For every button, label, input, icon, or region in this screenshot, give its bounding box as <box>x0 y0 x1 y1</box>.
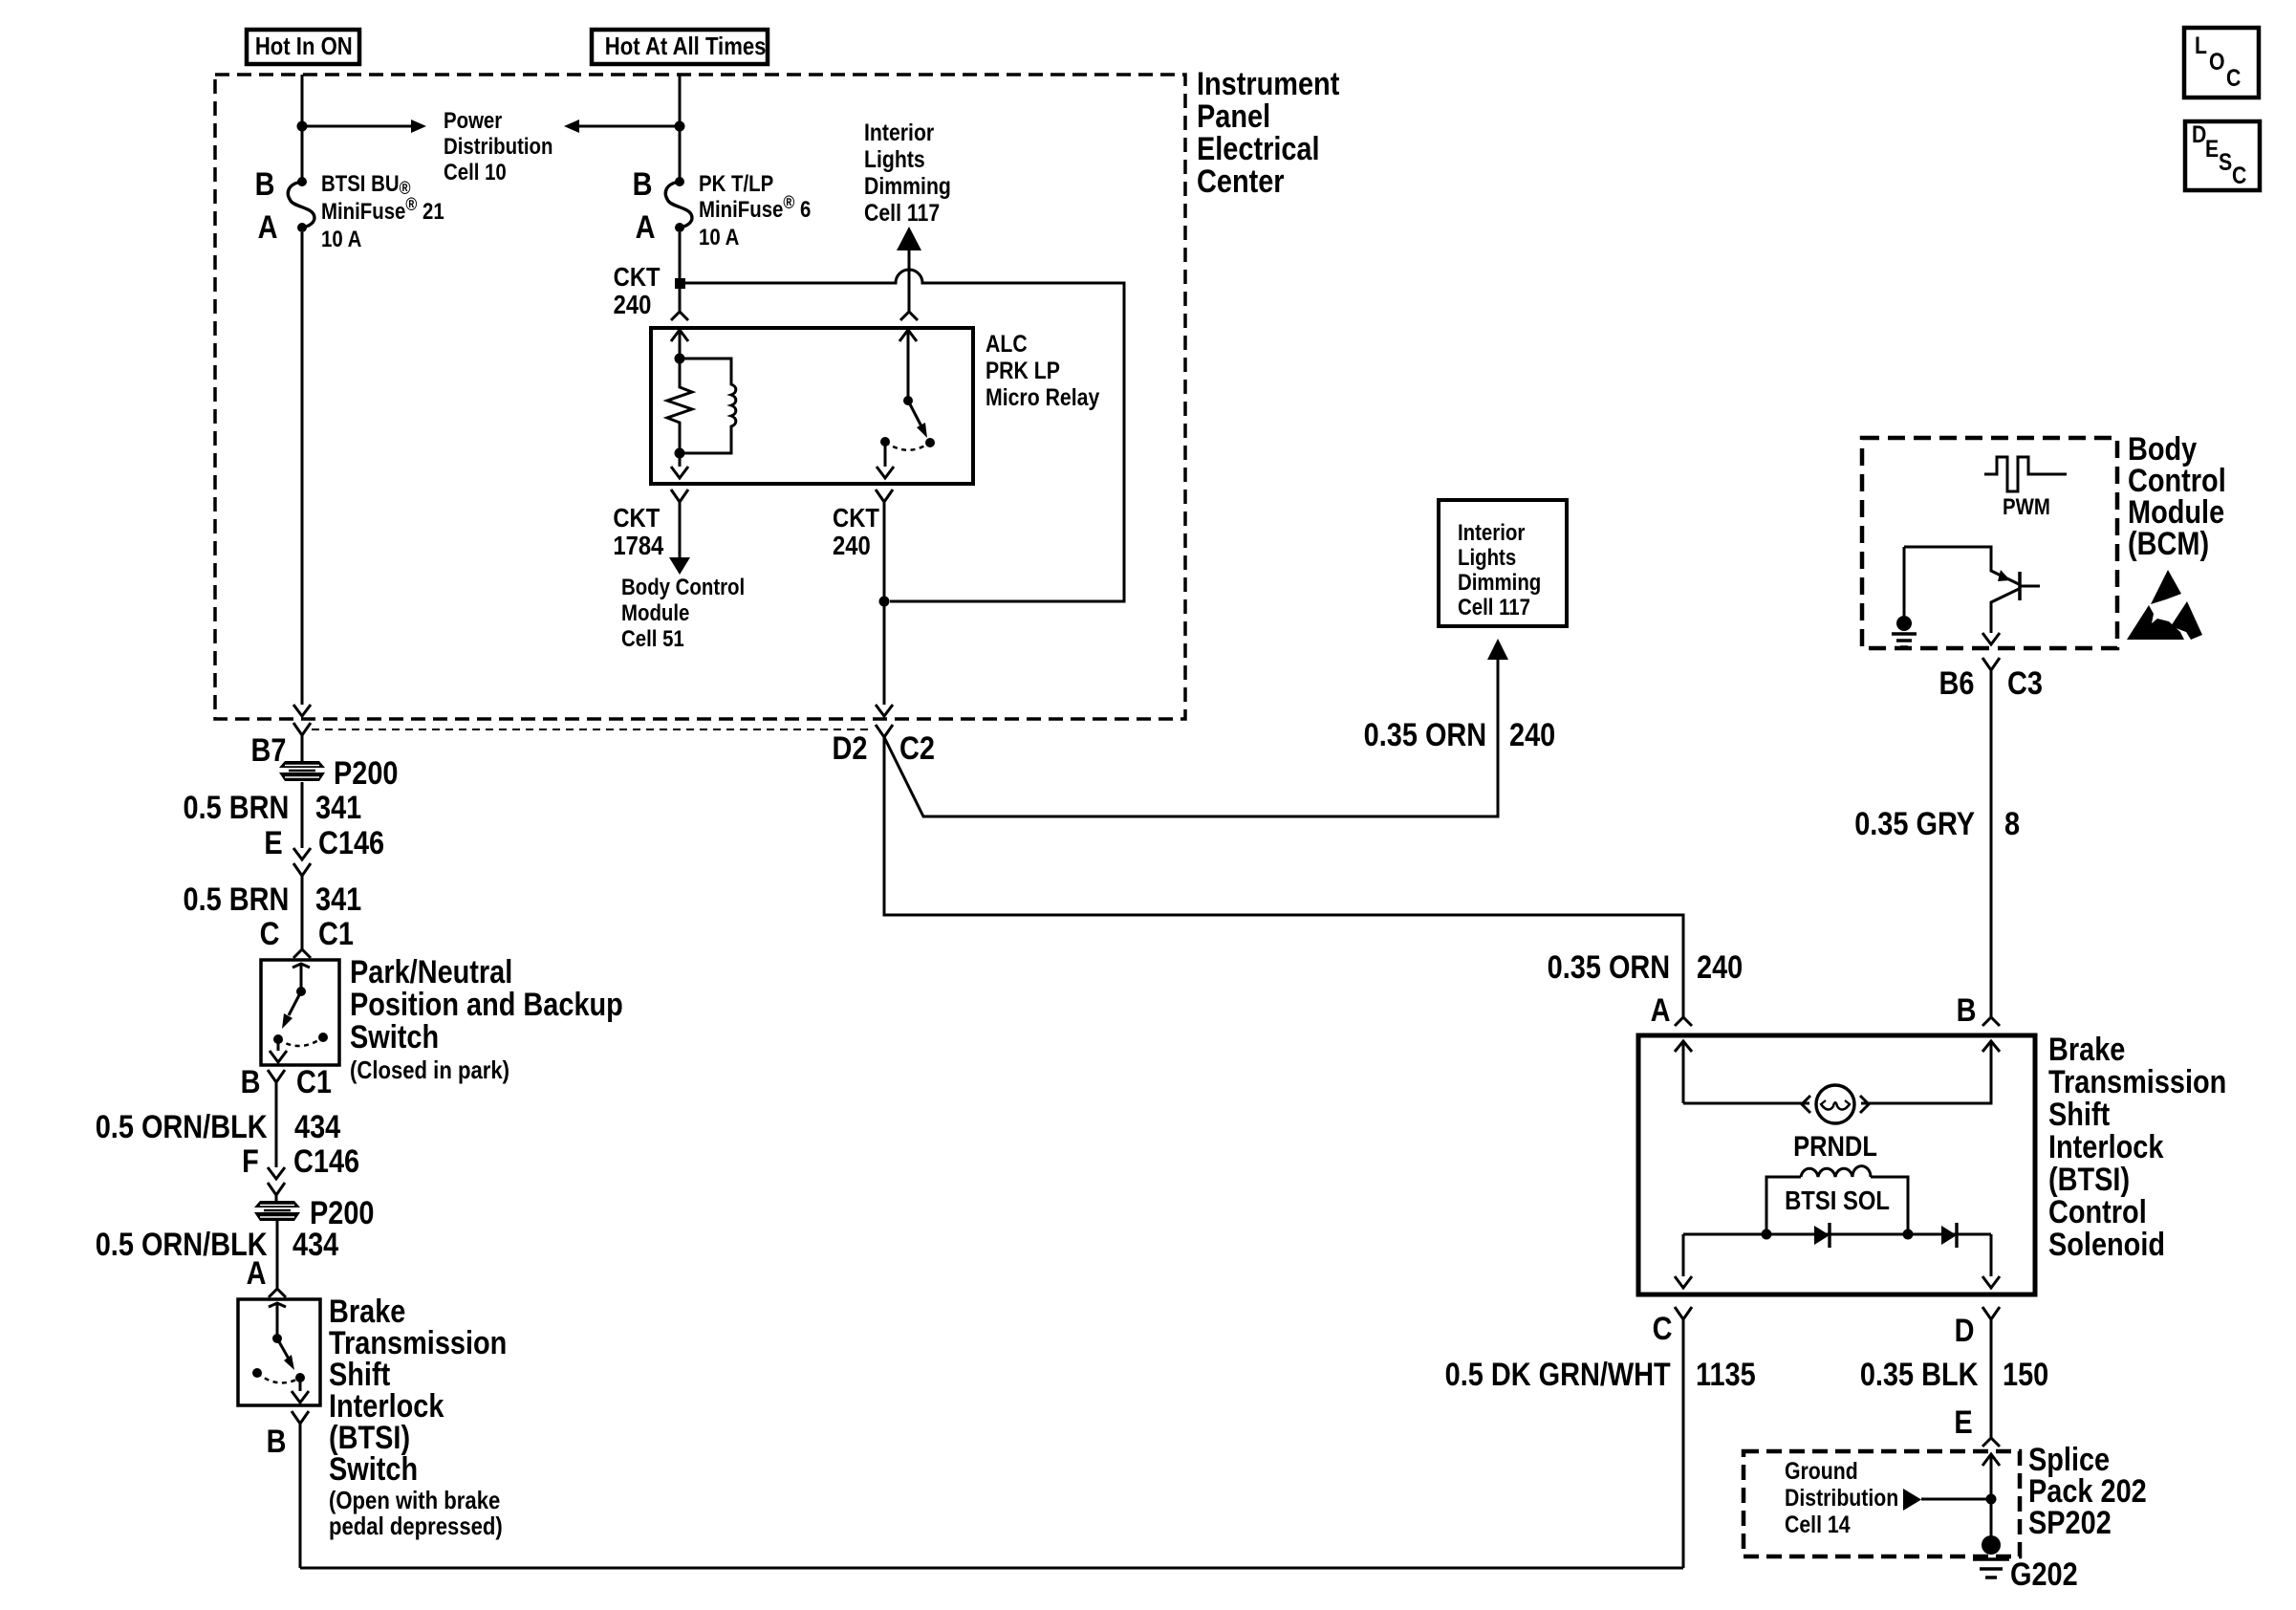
relay switch blade <box>908 401 921 426</box>
pin B C1 <box>241 1066 261 1099</box>
BCM internal ground symbol <box>1892 634 1917 647</box>
wire: BTSI switch B to solenoid pin C (bottom run) <box>300 1319 1683 1568</box>
arrowhead at D2 <box>876 705 893 716</box>
DESC reference box <box>2185 121 2260 190</box>
connector solenoid pin B (female Y) <box>1982 1017 2000 1026</box>
label Body Control Module Cell 51 <box>621 575 745 652</box>
wire label 0.35 BLK 150 <box>1859 1359 1978 1391</box>
wire: dimming stem down through hop to relay <box>900 250 918 320</box>
pin B fuse 21 <box>255 168 275 201</box>
label Brake Transmission Shift Interlock BTSI Switch <box>329 1296 507 1486</box>
label CKT 240 (relay output) <box>833 504 879 559</box>
label BTSI BU MiniFuse 21 10 A <box>321 171 444 252</box>
pin C3 <box>2007 667 2043 700</box>
label Brake Transmission Shift Interlock BTSI Control Solenoid <box>2048 1033 2226 1261</box>
BTSI SOL solenoid body <box>1766 1177 1908 1234</box>
ALC PRK LP micro relay box <box>651 328 973 484</box>
in-line connector thin dashed line <box>312 729 870 730</box>
wire label 0.5 DK GRN/WHT 1135 <box>1445 1359 1671 1391</box>
node: solenoid left junction <box>1762 1229 1772 1240</box>
connector B7 (female Y) <box>293 723 311 761</box>
label (Closed in park) <box>350 1057 509 1083</box>
pin A fuse 6 <box>636 211 656 244</box>
fuse BTSI BU MiniFuse 21 10A <box>297 177 307 186</box>
label Hot In ON <box>255 33 351 58</box>
BCM driver transistor Q <box>1904 547 2019 616</box>
pin B solenoid <box>1957 994 1977 1027</box>
brake transmission shift interlock BTSI switch box <box>238 1299 320 1405</box>
label P200 (lower) <box>310 1197 374 1229</box>
label Splice Pack 202 SP202 <box>2028 1445 2147 1539</box>
Hot At All Times label box <box>592 30 768 64</box>
Hot In ON label box <box>247 30 359 64</box>
wire label 0.5 ORN/BLK 434 (lower) <box>96 1229 268 1261</box>
relay switch output arrow down <box>877 442 894 478</box>
node: relay switch pivot <box>903 396 913 405</box>
pin A solenoid <box>1651 994 1671 1027</box>
arrowhead at C146 F <box>268 1167 285 1179</box>
wire: 0.5 ORN/BLK 434 to BTSI switch pin A <box>276 1221 279 1289</box>
LOC reference box <box>2184 28 2259 98</box>
relay coil feed arrow <box>671 330 688 359</box>
pin D2 <box>832 732 867 765</box>
label Park/Neutral Position and Backup Switch <box>350 956 623 1054</box>
wire label 0.35 ORN 240 (to dimming) <box>1363 719 1486 751</box>
label PRNDL <box>1785 1133 1885 1162</box>
connector C146 pass-through (female Y) <box>293 863 311 949</box>
wire: arrow to Power Distribution Cell 10 (left pointing) <box>579 125 680 128</box>
connector solenoid pin D (female Y) <box>1982 1307 2000 1438</box>
diode D1 (flyback across solenoid) <box>1814 1226 1830 1245</box>
label Hot At All Times <box>605 33 754 58</box>
node: solenoid right junction <box>1903 1229 1914 1240</box>
resistor (relay suppression) <box>667 359 692 453</box>
wire: C2 diagonal to 0.35 ORN 240 run <box>884 660 1498 816</box>
pin B BTSI switch <box>267 1425 287 1458</box>
label Body Control Module (BCM) <box>2128 434 2226 560</box>
CKT 1784 arrow to body control module <box>669 557 690 575</box>
node: splice junction SP202 <box>1986 1494 1997 1505</box>
wire label 0.5 BRN 341 (lower) <box>183 883 289 916</box>
ground G202 symbol <box>1973 1559 2009 1577</box>
brake transmission shift interlock BTSI control solenoid box <box>1638 1035 2035 1295</box>
body control module BCM dashed box <box>1862 438 2117 648</box>
wire: arrow to Power Distribution Cell 10 <box>302 125 411 128</box>
solenoid pin D arrow down <box>1982 1234 2000 1288</box>
label BTSI SOL <box>1777 1186 1897 1214</box>
wire label 0.5 BRN 341 (upper) <box>183 792 289 824</box>
connector C1 pin C (female Y) <box>293 949 311 958</box>
node: CKT 240 junction <box>675 278 685 289</box>
switch arm park/neutral <box>292 964 310 991</box>
node: relay coil bottom junction <box>675 448 685 459</box>
solenoid pin B arrow <box>1982 1041 2000 1052</box>
label Instrument Panel Electrical Center <box>1197 68 1339 198</box>
connector C146 pass-through (female Y) <box>268 1183 285 1201</box>
wire: CKT 240 horizontal run with hop over dimming stem <box>685 270 1124 601</box>
LOC box letters <box>2195 34 2207 58</box>
connector solenoid pin A (female Y) <box>1675 1017 1692 1026</box>
label PWM <box>2003 494 2050 520</box>
node: relay coil top junction <box>675 354 685 364</box>
label CKT 1784 <box>613 504 663 559</box>
interior lights dimming cell 117 box <box>1439 500 1567 626</box>
wire: Hot At All Times feed down to fuse 6 pin B <box>679 75 682 182</box>
connector at relay pin (female Y) <box>671 312 688 320</box>
solid arrow into interior lights dimming cell 117 box <box>1487 639 1508 660</box>
label CKT 240 (fuse output) <box>614 263 661 318</box>
DESC box letters <box>2192 123 2206 147</box>
node: junction at right feed <box>675 121 685 132</box>
wire: D2 down and across to solenoid pin A <box>884 737 1683 1017</box>
pin F C146 <box>242 1145 259 1178</box>
label PK T/LP MiniFuse 6 10 A <box>699 171 811 250</box>
splice pack entry arrow <box>1982 1454 2000 1542</box>
pin C2 <box>899 732 935 765</box>
ESD sensitive device symbol <box>2151 570 2181 604</box>
wire: PRNDL lamp run <box>1683 1041 1991 1103</box>
ground distribution tap with arrow <box>1903 1489 1921 1511</box>
PWM signal symbol <box>1984 457 2067 491</box>
connector below relay switch (female Y) <box>876 490 893 705</box>
relay switch common arrow up <box>899 330 917 401</box>
inductor relay coil <box>680 359 736 453</box>
splice pack 202 dashed box <box>1744 1451 2020 1556</box>
wire: solenoid C-D line <box>1683 1233 1991 1236</box>
connector B6 / C3 (female Y) <box>1982 658 2000 1017</box>
PRNDL illumination lamp <box>1816 1085 1854 1123</box>
wire label 0.35 ORN 240 (to solenoid A) <box>1547 951 1670 984</box>
node: junction at left feed <box>297 121 308 132</box>
label ALC PRK LP Micro Relay <box>986 331 1099 411</box>
wire label 0.5 ORN/BLK 434 (upper) <box>96 1111 268 1143</box>
connector below relay coil (female Y) <box>671 490 688 557</box>
arrowhead at C146 E <box>293 848 311 859</box>
relay coil to BCM arrow <box>671 453 688 478</box>
connector C1 pin B below switch (female Y) <box>268 1070 285 1167</box>
pin A BTSI switch <box>247 1257 267 1290</box>
pin E splice <box>1955 1406 1973 1439</box>
pin E C146 <box>265 827 283 859</box>
BTSI switch arm <box>269 1303 286 1338</box>
wire label 0.35 GRY 8 <box>1854 808 1975 840</box>
label Interior Lights Dimming Cell 117 (top) <box>864 120 951 227</box>
wire: fuse 6 pin A down to CKT 240 junction <box>679 232 682 312</box>
arrowhead into B7 <box>293 705 311 716</box>
connector solenoid pin C (female Y) <box>1675 1307 1692 1319</box>
pin B fuse 6 <box>633 168 653 201</box>
connector D2 / C2 (female Y) <box>876 725 893 737</box>
label (Open with brake pedal depressed) <box>329 1488 503 1539</box>
pin A fuse 21 <box>258 211 278 244</box>
connector pin A (female Y) <box>269 1289 286 1297</box>
pin C solenoid <box>1653 1313 1673 1345</box>
splice P200 (lower) <box>254 1201 300 1221</box>
solenoid pin C arrow down <box>1675 1234 1692 1288</box>
wire: 0.35 BLK 150 to splice pack, connector E (female Y) <box>1982 1438 2000 1447</box>
label Interior Lights Dimming Cell 117 (boxed) <box>1458 521 1541 620</box>
label P200 (upper) <box>334 757 398 790</box>
label Ground Distribution Cell 14 <box>1785 1458 1898 1538</box>
solenoid pin A arrow <box>1675 1041 1692 1103</box>
splice P200 (upper) <box>279 761 325 781</box>
label Power Distribution Cell 10 <box>444 108 552 185</box>
pin D solenoid <box>1955 1315 1975 1347</box>
arrowhead at BCM pin C3 <box>1982 633 2000 644</box>
BTSI SOL coil <box>1801 1166 1871 1177</box>
fuse PK T/LP MiniFuse 6 10A <box>675 177 684 186</box>
node: junction on CKT 240 return <box>879 597 890 607</box>
connector pin B below BTSI switch (female Y) <box>292 1411 309 1568</box>
wire: Hot In ON feed down to fuse 21 pin B <box>301 75 304 182</box>
wire: 0.5 BRN 341 from P200 to C146 pin E <box>301 782 304 848</box>
pin C C1 <box>260 918 280 950</box>
pin B6 <box>1939 667 1974 700</box>
park/neutral position and backup switch box <box>261 960 339 1065</box>
BCM internal ground dot <box>1896 616 1912 631</box>
ground G202 dot <box>1982 1535 2001 1555</box>
label G202 <box>2010 1558 2078 1591</box>
diode D2 (series) <box>1941 1226 1957 1245</box>
instrument panel electrical center dashed box <box>215 75 1185 719</box>
wire: fuse 21 pin A down to connector B7 <box>301 232 304 705</box>
interior lights dimming feed arrow (top center) <box>897 227 921 250</box>
label B7 <box>250 734 286 767</box>
